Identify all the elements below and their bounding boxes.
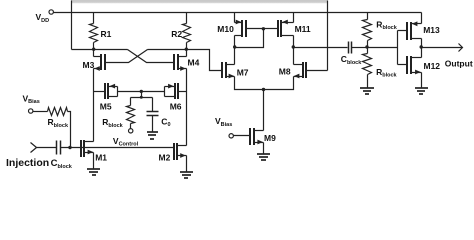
svg-text:M4: M4: [188, 58, 200, 68]
svg-text:M11: M11: [295, 24, 311, 34]
svg-text:VControl: VControl: [113, 136, 139, 148]
svg-text:M5: M5: [100, 101, 112, 111]
svg-text:Rblock: Rblock: [48, 117, 69, 129]
svg-text:M12: M12: [424, 61, 441, 71]
svg-text:Cblock: Cblock: [51, 158, 73, 170]
svg-text:Rblock: Rblock: [376, 19, 397, 31]
svg-text:R1: R1: [101, 29, 112, 39]
svg-text:M13: M13: [423, 25, 440, 35]
svg-text:Rblock: Rblock: [102, 117, 123, 129]
svg-text:Output: Output: [445, 59, 473, 69]
svg-text:M10: M10: [217, 24, 234, 34]
svg-text:Cblock: Cblock: [341, 54, 362, 66]
svg-text:VBias: VBias: [23, 93, 40, 105]
svg-text:M9: M9: [264, 133, 276, 143]
svg-text:M3: M3: [83, 60, 95, 70]
svg-text:Rblock: Rblock: [376, 67, 397, 79]
svg-text:M2: M2: [159, 153, 171, 163]
svg-text:C0: C0: [161, 116, 170, 128]
svg-text:M6: M6: [170, 101, 182, 111]
svg-text:M8: M8: [279, 67, 291, 77]
svg-text:VBias: VBias: [215, 116, 232, 128]
svg-text:M1: M1: [95, 153, 107, 163]
svg-text:VDD: VDD: [36, 12, 50, 24]
svg-text:M7: M7: [237, 68, 249, 78]
svg-text:R2: R2: [171, 29, 182, 39]
svg-text:Injection: Injection: [6, 157, 49, 169]
